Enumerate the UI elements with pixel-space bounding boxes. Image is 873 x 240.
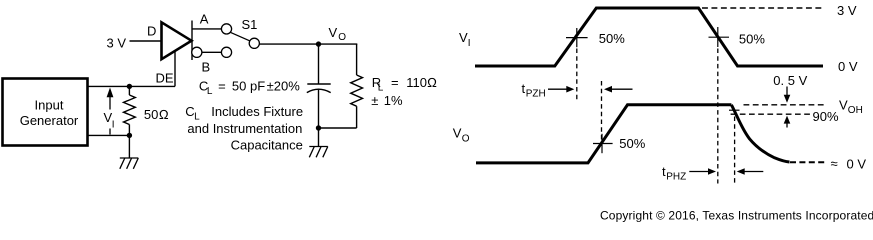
switch S1 blade [230, 32, 250, 41]
0.5V down arrow [786, 87, 788, 96]
value label RL = 110 ohm +-1% [371, 75, 437, 108]
svg-text:Capacitance: Capacitance [231, 137, 303, 152]
svg-text:V: V [329, 25, 338, 40]
driver buffer U1 (triangle) [162, 22, 192, 59]
svg-text:A: A [200, 12, 209, 27]
svg-text:=: = [391, 75, 399, 90]
wire: generator bottom to resistor bottom [88, 134, 129, 136]
svg-text:PZH: PZH [526, 89, 546, 100]
wire: ground lead of 50 ohm [128, 135, 130, 158]
svg-text:L: L [207, 86, 213, 97]
svg-text:I: I [112, 120, 115, 131]
svg-text:B: B [202, 60, 211, 75]
wire: 3V to driver input D [130, 40, 162, 42]
waveform VI [475, 8, 823, 66]
svg-text:Generator: Generator [20, 113, 79, 128]
ground (under CL) [309, 147, 328, 158]
node VO dot [316, 41, 321, 46]
dashed line at VO rise 50% [601, 81, 603, 144]
switch S1 contact A [221, 24, 231, 34]
svg-text:3 V: 3 V [837, 3, 857, 18]
svg-text:V: V [459, 30, 468, 45]
dashed line at VO 0.5V drop [734, 117, 736, 184]
svg-text:≈: ≈ [831, 156, 838, 171]
dashed approx 0V level [790, 161, 824, 163]
dashed 3V level [702, 7, 822, 9]
svg-text:Input: Input [35, 98, 64, 113]
value label CL = 50 pF +-20% [199, 79, 300, 98]
tPZH arrow left part [548, 88, 568, 90]
90% tick on curve [729, 109, 740, 111]
capacitor CL [318, 44, 320, 84]
dashed 90% level [731, 113, 810, 115]
dashed line at VI fall 50% [717, 49, 719, 184]
50% cross on VI fall [709, 27, 730, 47]
svg-text:0. 5 V: 0. 5 V [773, 73, 807, 88]
svg-text:50%: 50% [619, 136, 645, 151]
dashed VOH level [744, 104, 824, 106]
svg-text:OH: OH [848, 105, 863, 116]
svg-text:O: O [462, 134, 470, 145]
wire: pole to VO node [260, 43, 358, 45]
svg-text:L: L [378, 83, 384, 94]
svg-text:and Instrumentation: and Instrumentation [187, 121, 302, 136]
svg-text:V: V [453, 126, 462, 141]
node: junction dot bottom of CL [316, 125, 321, 130]
svg-text:110Ω: 110Ω [406, 75, 437, 90]
svg-text:DE: DE [156, 70, 174, 85]
0.5V up arrow [784, 116, 791, 124]
svg-text:50%: 50% [599, 31, 625, 46]
wire: DE enable line [174, 51, 176, 87]
resistor R 50 ohm [128, 86, 130, 95]
switch S1 contact B stub [192, 47, 202, 57]
50% cross on VI rise [566, 28, 588, 47]
svg-text:50 pF: 50 pF [232, 79, 265, 94]
arrow VI (input voltage) [109, 96, 111, 110]
wire: to contact A [192, 28, 221, 30]
switch S1 pole [249, 38, 259, 48]
node: junction dot top of 50 ohm [127, 84, 132, 89]
input generator box [3, 79, 88, 146]
wire: driver output vertical to A and B [191, 21, 193, 61]
svg-text:50: 50 [144, 107, 158, 122]
tPHZ arrow right part [737, 168, 745, 175]
svg-text:±: ± [371, 93, 378, 108]
waveform VO decay curve [731, 105, 789, 162]
svg-text:PHZ: PHZ [666, 172, 686, 183]
dashed line at VI rise 50% [576, 49, 578, 103]
wire: bottom between CL and RL [319, 127, 357, 129]
50% cross on VO rise [593, 134, 613, 153]
svg-text:1%: 1% [384, 93, 403, 108]
svg-text:3 V: 3 V [107, 36, 127, 51]
svg-text:Includes Fixture: Includes Fixture [211, 104, 303, 119]
node: junction dot bottom of 50 ohm [127, 133, 132, 138]
note CL includes fixture [185, 104, 303, 152]
svg-text:D: D [147, 23, 156, 38]
waveform VO [476, 105, 731, 163]
svg-text:I: I [468, 38, 471, 49]
ground (under 50 ohm) [120, 158, 139, 169]
svg-text:90%: 90% [813, 109, 839, 124]
svg-text:±20%: ±20% [267, 79, 301, 94]
svg-text:0 V: 0 V [838, 59, 858, 74]
wire: ground lead [318, 128, 320, 147]
wire: VO node to RL [356, 44, 358, 75]
svg-text:=: = [218, 79, 226, 94]
svg-text:Copyright © 2016, Texas Instru: Copyright © 2016, Texas Instruments Inco… [600, 209, 873, 223]
svg-text:V: V [839, 97, 848, 112]
svg-text:S1: S1 [242, 17, 258, 32]
svg-text:Ω: Ω [159, 107, 169, 122]
svg-text:0 V: 0 V [847, 156, 867, 171]
tPHZ arrow left part [689, 171, 709, 173]
svg-text:O: O [338, 32, 346, 43]
resistor RL [351, 75, 363, 106]
svg-text:50%: 50% [739, 32, 765, 47]
wire: generator top output to DE [88, 85, 175, 87]
tPZH arrow right part [604, 86, 612, 93]
